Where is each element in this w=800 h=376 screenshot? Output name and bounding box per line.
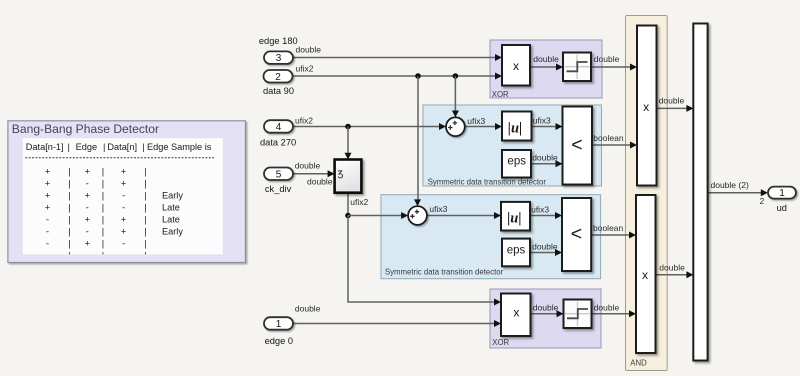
svg-text:x: x xyxy=(642,268,648,282)
mux / concatenate block xyxy=(693,24,707,361)
svg-text:|: | xyxy=(103,142,105,152)
junction dot data90 branch 1 xyxy=(415,73,421,79)
subsystem XOR (bottom) xyxy=(490,289,601,348)
abs1 block |u| xyxy=(502,112,532,141)
svg-text:Edge: Edge xyxy=(76,142,97,152)
wire data270 down into delay top xyxy=(345,127,352,160)
table row 4 xyxy=(45,203,180,213)
svg-text:double: double xyxy=(533,54,559,64)
svg-text:double: double xyxy=(659,263,685,273)
wire XOR1 x to relay1, label double xyxy=(530,54,563,71)
svg-text:|: | xyxy=(102,178,104,188)
eps1 constant block xyxy=(502,150,531,178)
input port 4 xyxy=(260,120,296,147)
wire relay2 to AND x2, label double xyxy=(592,303,637,318)
svg-text:|: | xyxy=(68,166,70,176)
svg-text:|: | xyxy=(102,203,104,213)
svg-text:+: + xyxy=(85,215,90,225)
wire relational2 to AND x2, label boolean xyxy=(591,223,636,239)
input port 5 xyxy=(264,168,293,195)
input port 3 xyxy=(259,36,298,64)
svg-text:Symmetric data transition dete: Symmetric data transition detector xyxy=(385,268,504,277)
rate transition block (ck_div delay) xyxy=(335,160,362,193)
input port 2 xyxy=(263,70,294,96)
svg-text:|: | xyxy=(68,191,70,201)
wire port1 edge0 to XOR2 x bottom input, label double xyxy=(294,304,502,328)
svg-text:|: | xyxy=(144,166,146,176)
annotation table panel xyxy=(23,138,223,254)
svg-text:data 270: data 270 xyxy=(260,137,296,147)
subsystem AND xyxy=(626,16,668,371)
wire relational1 to AND x1, label boolean xyxy=(592,133,637,148)
svg-text:double: double xyxy=(533,303,559,313)
svg-text:|: | xyxy=(144,239,146,249)
svg-text:+: + xyxy=(45,203,50,213)
svg-text:double: double xyxy=(532,152,558,162)
output port 1 ud xyxy=(768,187,796,213)
wire AND x2 to mux, label double xyxy=(655,263,693,279)
abs2 block |u| xyxy=(501,202,530,231)
relational1 block < xyxy=(563,107,593,185)
svg-text:|: | xyxy=(102,215,104,225)
wire sum1 to abs1, label ufix3 xyxy=(465,116,502,130)
table row 3 xyxy=(45,191,184,201)
svg-text:Symmetric data transition dete: Symmetric data transition detector xyxy=(428,177,547,186)
wire delay out down to XOR2 x top input xyxy=(348,216,501,306)
table header xyxy=(26,142,212,152)
svg-text:|: | xyxy=(142,142,144,152)
table row 8 xyxy=(46,251,147,261)
svg-text:+: + xyxy=(45,178,50,188)
svg-text:|: | xyxy=(68,142,70,152)
svg-text:double: double xyxy=(659,95,685,105)
table row 7 xyxy=(46,239,147,249)
svg-text:x: x xyxy=(513,59,519,73)
junction dot data270 to delay xyxy=(345,124,351,130)
svg-text:-: - xyxy=(86,178,89,188)
svg-text:|: | xyxy=(144,227,146,237)
svg-text:|: | xyxy=(144,215,146,225)
input port 1 xyxy=(264,317,293,346)
table row 1 xyxy=(45,166,147,176)
svg-text:+: + xyxy=(85,166,90,176)
svg-text:XOR: XOR xyxy=(492,338,509,347)
relay1 block xyxy=(563,53,591,82)
svg-text:double: double xyxy=(296,44,322,54)
svg-text:Late: Late xyxy=(162,203,180,213)
svg-text:ufix3: ufix3 xyxy=(533,115,551,125)
relay2 block xyxy=(564,300,592,329)
svg-text:2: 2 xyxy=(275,72,281,83)
AND product block x2 xyxy=(636,195,656,353)
svg-text:-: - xyxy=(46,215,49,225)
svg-text:-: - xyxy=(86,227,89,237)
svg-text:+: + xyxy=(85,239,90,249)
svg-text:1: 1 xyxy=(779,188,785,199)
svg-text:-: - xyxy=(122,191,125,201)
svg-text:|: | xyxy=(144,203,146,213)
svg-text:Edge Sample is: Edge Sample is xyxy=(147,142,212,152)
svg-text:-: - xyxy=(46,227,49,237)
wire port2 data90 to XOR x, label ufix2 xyxy=(294,63,503,79)
svg-text:edge 0: edge 0 xyxy=(265,336,293,346)
svg-text:|: | xyxy=(68,239,70,249)
svg-text:|: | xyxy=(102,227,104,237)
svg-text:+: + xyxy=(121,215,126,225)
svg-text:-: - xyxy=(46,239,49,249)
svg-text:ufix3: ufix3 xyxy=(429,204,447,214)
svg-text:Data[n-1]: Data[n-1] xyxy=(26,142,64,152)
svg-text:ufix2: ufix2 xyxy=(296,63,314,73)
svg-text:Late: Late xyxy=(162,215,180,225)
table row 5 xyxy=(46,215,180,225)
svg-text:3: 3 xyxy=(276,53,282,64)
svg-text:double (2): double (2) xyxy=(711,180,749,190)
svg-text:Early: Early xyxy=(162,191,183,201)
svg-text:|: | xyxy=(144,178,146,188)
eps2 constant block xyxy=(502,239,530,267)
svg-text:double: double xyxy=(307,176,333,186)
svg-text:2: 2 xyxy=(760,196,765,206)
wire abs2 to relational2 top, label ufix3 xyxy=(530,205,562,220)
svg-text:|: | xyxy=(102,191,104,201)
svg-text:+: + xyxy=(85,191,90,201)
svg-text:-: - xyxy=(86,203,89,213)
wire abs1 to relational1 top, label ufix3 xyxy=(532,115,563,130)
table divider xyxy=(25,157,214,159)
svg-text:ck_div: ck_div xyxy=(265,184,292,194)
svg-text:AND: AND xyxy=(630,359,647,368)
junction dot data90 branch 2 xyxy=(453,73,459,79)
svg-text:XOR: XOR xyxy=(492,90,509,99)
subsystem XOR (top) xyxy=(490,40,602,99)
svg-text:double: double xyxy=(594,54,620,64)
relational2 block < xyxy=(562,198,591,271)
wire XOR2 x to relay2, label double xyxy=(531,303,564,318)
svg-text:1: 1 xyxy=(276,319,282,330)
svg-text:double: double xyxy=(532,242,558,252)
svg-text:+: + xyxy=(45,166,50,176)
svg-text:data 90: data 90 xyxy=(263,86,294,96)
svg-text:|: | xyxy=(144,191,146,201)
svg-text:eps: eps xyxy=(507,244,526,256)
svg-text:+: + xyxy=(45,191,50,201)
wire mux to outport ud, labels double (2) and 2 xyxy=(708,180,768,206)
XOR2 product block x xyxy=(501,294,531,337)
svg-text:|u|: |u| xyxy=(507,210,521,226)
svg-text:5: 5 xyxy=(276,169,282,180)
svg-text:|: | xyxy=(68,215,70,225)
junction dot delay output xyxy=(345,213,351,219)
svg-text:+: + xyxy=(121,178,126,188)
svg-text:|: | xyxy=(102,166,104,176)
svg-text:ufix3: ufix3 xyxy=(467,116,485,126)
wire relay1 to AND x1, label double xyxy=(591,54,637,71)
svg-text:-: - xyxy=(122,239,125,249)
svg-text:Bang-Bang Phase Detector: Bang-Bang Phase Detector xyxy=(12,122,159,136)
AND product block x1 xyxy=(637,26,657,186)
svg-text:boolean: boolean xyxy=(593,133,624,143)
svg-text:|: | xyxy=(68,227,70,237)
svg-text:Data[n]: Data[n] xyxy=(107,142,137,152)
svg-text:<: < xyxy=(571,223,582,245)
svg-text:4: 4 xyxy=(276,122,282,133)
svg-text:ufix2: ufix2 xyxy=(350,197,368,207)
subsystem Symmetric data transition detector (bottom) xyxy=(381,195,601,279)
wire data90 down to sum1 top xyxy=(452,76,459,117)
wire delay output down, label ufix2 xyxy=(348,193,369,216)
wire eps1 to relational1 bottom, label double xyxy=(531,152,563,167)
svg-text:ud: ud xyxy=(777,203,787,213)
table row 2 xyxy=(45,178,147,188)
svg-text:x: x xyxy=(643,100,649,114)
svg-text:ufix2: ufix2 xyxy=(295,115,313,125)
XOR1 product block x xyxy=(502,45,530,86)
svg-text:edge 180: edge 180 xyxy=(259,36,298,46)
subsystem Symmetric data transition detector (top) xyxy=(423,105,602,186)
wire sum2 to abs2, label ufix3 xyxy=(427,204,501,219)
svg-text:double: double xyxy=(295,304,321,314)
wire eps2 to relational2 bottom, label double xyxy=(530,242,562,257)
table row 6 xyxy=(46,227,183,237)
svg-text:-: - xyxy=(122,203,125,213)
svg-text:eps: eps xyxy=(507,155,526,167)
svg-text:+: + xyxy=(121,227,126,237)
svg-text:|: | xyxy=(68,178,70,188)
annotation box Bang-Bang Phase Detector xyxy=(8,121,246,263)
wire delay out to sum2 left xyxy=(348,212,408,219)
svg-text:Early: Early xyxy=(162,227,183,237)
sum2 block xyxy=(408,206,427,225)
svg-text:<: < xyxy=(571,134,582,156)
wire port3 edge180 to XOR x, label double xyxy=(294,44,503,61)
svg-text:|: | xyxy=(102,239,104,249)
svg-text:boolean: boolean xyxy=(593,223,624,233)
wire AND x1 to mux, label double xyxy=(657,95,694,112)
wire data90 down to sum2 top xyxy=(414,76,421,206)
svg-text:ufix3: ufix3 xyxy=(531,205,549,215)
svg-text:|: | xyxy=(68,203,70,213)
svg-text:x: x xyxy=(513,306,519,320)
svg-text:|u|: |u| xyxy=(508,121,522,137)
svg-text:+: + xyxy=(121,166,126,176)
svg-text:double: double xyxy=(594,303,620,313)
svg-text:double: double xyxy=(295,161,321,171)
sum1 block xyxy=(446,117,465,136)
wire port4 data270 to sum1 left, label ufix2 xyxy=(292,115,447,130)
wire port5 ck_div to delay left, labels double xyxy=(292,161,335,187)
